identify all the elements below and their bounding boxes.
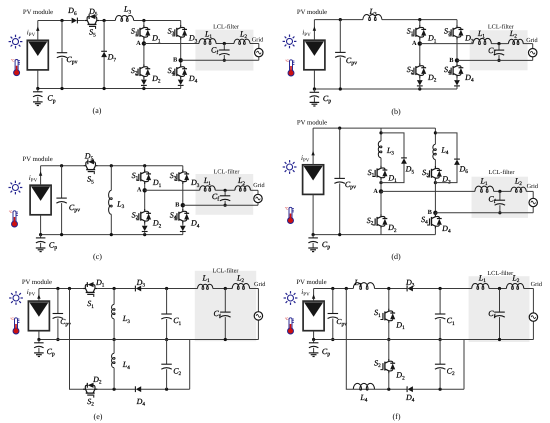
transistor S2 (f) [374, 340, 405, 390]
node C2 bottom (f) [439, 388, 442, 391]
capacitor Cf (a) [211, 44, 230, 61]
LCL-filter label (f) [487, 270, 513, 277]
diode D3 label (d) [441, 175, 451, 186]
diode D7 (a) [101, 21, 116, 89]
capacitor Cf (c) [212, 190, 230, 205]
diode D4 (e) [135, 386, 145, 407]
capacitor Cpv (c) [56, 166, 80, 235]
capacitor Cp (e) [34, 340, 55, 358]
PV panel (e) [28, 301, 49, 331]
svg-text:B: B [175, 202, 180, 209]
PV panel (f) [303, 301, 324, 331]
wire bottom rail (b) [314, 88, 457, 90]
wire filter bottom (a) [181, 57, 259, 61]
svg-text:PV module: PV module [23, 156, 53, 163]
diode D4 label (b) [464, 73, 474, 84]
capacitor Cpv (a) [57, 21, 78, 89]
AC source grid (a) [255, 48, 263, 56]
wire top rail (e) [39, 288, 259, 290]
wire PV top lead (e) [38, 289, 40, 302]
wire feed S2 (e) [70, 289, 84, 390]
svg-text:PV module: PV module [23, 9, 53, 16]
current arrow i_PV (d) [301, 151, 315, 164]
diode below S4 (a) [178, 80, 184, 89]
wire filter top (a) [144, 44, 259, 49]
diode below S2 (c) [142, 226, 148, 235]
node Cpv bottom (d) [338, 233, 341, 236]
node B (c) [175, 202, 185, 209]
wire PV bottom lead (c) [40, 215, 42, 235]
svg-text:(f): (f) [393, 412, 401, 421]
node filter top junction (a) [223, 42, 226, 45]
LCL-filter label (a) [213, 24, 239, 31]
inductor L1 (a) [199, 30, 216, 45]
node filter bottom junction (b) [497, 59, 500, 62]
transistor S4 (a) [168, 64, 187, 78]
thermometer icon (a) [11, 59, 20, 76]
thermometer icon (d) [285, 207, 294, 224]
current arrow i_PV (b) [302, 26, 316, 38]
AC source grid (d) [529, 198, 537, 206]
AC source grid (f) [529, 313, 537, 321]
current arrow i_PV (c) [29, 171, 43, 183]
wire right leg upper (d) [434, 128, 436, 167]
node right tee (d) [434, 131, 437, 134]
svg-text:LCL-filter: LCL-filter [489, 169, 515, 176]
diode D4 label (a) [188, 74, 198, 85]
inductor L2 (e) [232, 274, 249, 290]
wire bridge right leg (b) [456, 20, 458, 80]
svg-text:°C: °C [285, 317, 289, 321]
capacitor Cf (b) [488, 44, 504, 61]
inductor L1 (d) [475, 176, 494, 192]
wire top rail (c) [41, 165, 183, 167]
inductor L3 (e) [112, 289, 131, 340]
node L4 bottom (e) [113, 388, 116, 391]
diode D1 label (d) [387, 174, 397, 185]
svg-text:A: A [373, 188, 378, 195]
PV panel (d) [303, 165, 324, 195]
svg-text:(a): (a) [93, 106, 102, 115]
wire filter top (d) [381, 191, 533, 198]
diode D3 label (b) [464, 34, 474, 45]
node filter top junction (e) [224, 287, 227, 290]
wire return drop (e) [189, 340, 191, 390]
svg-text:°C: °C [10, 317, 14, 321]
PV module label (a) [23, 9, 53, 16]
wire top rail (b) [314, 19, 457, 21]
transistor S2 with diode D2 (e) [83, 375, 102, 408]
node Cpv top (e) [56, 287, 59, 290]
caption (a) [93, 106, 102, 115]
node C2 bottom (e) [165, 388, 168, 391]
node PV bottom (b) [313, 87, 316, 90]
svg-text:Grid: Grid [527, 183, 539, 190]
svg-text:PV module: PV module [22, 279, 52, 286]
node bridge left top (a) [142, 19, 145, 22]
node below S1 (d) [379, 181, 382, 184]
AC source grid (b) [529, 49, 537, 57]
current arrow i_PV (f) [301, 288, 315, 299]
sun icon (f) [284, 291, 298, 305]
LCL-filter label (d) [489, 169, 515, 176]
inductor L1 (e) [198, 274, 213, 290]
node Cpv bottom (e) [56, 338, 59, 341]
sun icon (c) [9, 181, 23, 195]
diode below S2 (b) [417, 80, 423, 89]
PV module label (b) [297, 9, 327, 16]
AC source grid (e) [254, 312, 262, 320]
node D7 bottom (a) [103, 87, 106, 90]
wire filter top (c) [145, 190, 258, 194]
node PV bottom (a) [36, 87, 39, 90]
diode below S2 (a) [141, 80, 147, 89]
node filter bottom junction (d) [498, 211, 501, 214]
svg-text:LCL-filter: LCL-filter [487, 270, 513, 277]
wire top rail (f) [314, 288, 534, 290]
capacitor Cp (c) [36, 235, 57, 252]
wire A to S2 (d) [380, 191, 382, 215]
inductor L4 (f) [353, 383, 374, 403]
wire bridge right leg (a) [180, 21, 182, 80]
transistor S2 (d) [367, 214, 388, 228]
node Cpv bottom (b) [339, 87, 342, 90]
transistor S2 (c) [132, 209, 151, 223]
node Cpv bottom (f) [331, 338, 334, 341]
diode D1 label (a) [151, 34, 161, 45]
node S1 top (f) [387, 287, 390, 290]
wire PV bottom lead (f) [313, 331, 315, 340]
node PV bottom (c) [39, 233, 42, 236]
PV module label (e) [22, 279, 52, 286]
transistor S4 (b) [444, 63, 463, 77]
transistor S1 (c) [132, 170, 151, 184]
capacitor Cpv (f) [328, 289, 348, 340]
node PV bottom mid (f) [312, 338, 315, 341]
thermometer icon (e) [10, 317, 19, 334]
wire B to S4 (d) [434, 213, 436, 215]
svg-text:Grid: Grid [254, 281, 266, 288]
Grid label (b) [526, 37, 538, 44]
inductor L2 (f) [506, 274, 523, 290]
wire bottom rail (d) [313, 234, 435, 236]
transistor S5 with diode D5 (c) [84, 152, 98, 186]
inductor L3 (d) [378, 141, 394, 158]
svg-text:Grid: Grid [252, 36, 264, 43]
wire PV top lead (c) [40, 166, 42, 186]
node filter bottom junction (c) [224, 204, 227, 207]
wire PV top lead (b) [313, 20, 315, 41]
LCL-filter box (c) [196, 174, 254, 215]
node C1 bottom (f) [439, 338, 442, 341]
wire bottom rail (a) [38, 88, 181, 90]
node B (a) [173, 57, 183, 64]
node Cpv top (a) [60, 19, 63, 22]
wire S2 to rail (d) [380, 228, 382, 235]
wire return drop (f) [463, 340, 465, 390]
diode D3 (e) [135, 278, 145, 291]
diode D4 (f) [405, 386, 415, 403]
transistor S2 (b) [407, 63, 426, 77]
transistor S3 (c) [170, 170, 189, 184]
capacitor Cf (e) [214, 289, 231, 340]
inductor L2 (c) [235, 176, 251, 191]
PV module label (f) [296, 279, 326, 286]
wire PV top lead (f) [313, 289, 315, 302]
transistor S1 (a) [131, 25, 150, 39]
node filter top junction (f) [498, 287, 501, 290]
transistor S3 (b) [444, 25, 463, 39]
node B (d) [428, 209, 438, 216]
node bridge left top (b) [418, 18, 421, 21]
wire filter top (f) [472, 289, 534, 313]
wire top rail (a) [38, 20, 181, 22]
inductor L4 (e) [112, 340, 131, 390]
wire bottom rail (e) [83, 388, 190, 390]
svg-text:Grid: Grid [531, 281, 543, 288]
node L3 top (c) [110, 164, 113, 167]
inductor L2 (d) [511, 176, 526, 192]
wire filter bottom (d) [435, 207, 533, 213]
node Cpv top (d) [338, 127, 341, 130]
caption (c) [93, 252, 102, 261]
node bridge left bottom (b) [418, 87, 421, 90]
svg-text:Grid: Grid [253, 182, 265, 189]
diode D4 label (d) [441, 224, 451, 235]
svg-text:PV module: PV module [297, 9, 327, 16]
caption (b) [391, 107, 401, 116]
node filter top junction (b) [497, 42, 500, 45]
inductor L2 (a) [234, 30, 250, 45]
transistor S4 (c) [170, 209, 189, 223]
node filter bottom junction (f) [498, 338, 501, 341]
wire PV bottom lead (d) [312, 194, 314, 234]
wire bridge left leg (b) [419, 20, 421, 80]
capacitor Cp (d) [308, 235, 330, 252]
capacitor Cf (d) [488, 191, 505, 212]
wire filter bottom (b) [457, 57, 533, 61]
wire filter bottom (c) [183, 203, 258, 206]
node after S5 (a) [103, 19, 106, 22]
wire mid rail (f) [314, 339, 534, 341]
diode D4 label (c) [190, 219, 200, 230]
capacitor C1 (e) [161, 289, 181, 340]
node Cpv bottom (a) [60, 87, 63, 90]
node bridge left top (c) [143, 164, 146, 167]
thermometer icon (c) [9, 210, 18, 227]
node Cpv top (b) [339, 18, 342, 21]
wire bottom rail (f) [353, 388, 464, 390]
node PV bottom (d) [312, 233, 315, 236]
diode below S4 (c) [180, 226, 186, 235]
wire bridge left leg (c) [144, 166, 146, 226]
wire S3 to B (d) [434, 180, 436, 213]
LCL-filter box (e) [195, 271, 256, 341]
diode D3 label (c) [190, 178, 200, 189]
wire S1 to A (d) [380, 179, 382, 191]
wire S4 to rail (d) [434, 228, 436, 235]
inductor L3 (b) [363, 7, 382, 21]
node L3 top (e) [113, 287, 116, 290]
Grid label (f) [531, 281, 543, 288]
svg-text:(c): (c) [93, 252, 102, 261]
wire filter bottom (e) [230, 320, 258, 339]
node below S3 (d) [434, 181, 437, 184]
wire mid rail (e) [39, 339, 259, 341]
inductor L4 (d) [433, 144, 449, 159]
PV module label (d) [297, 119, 327, 126]
node Cpv top (c) [60, 164, 63, 167]
diode D1 label (c) [152, 178, 162, 189]
PV panel (a) [27, 40, 48, 70]
inductor L3 (f) [353, 278, 374, 289]
wire PV top lead (d) [312, 128, 314, 165]
diode D6 (a) [67, 6, 77, 23]
node Cpv top (f) [331, 287, 334, 290]
diode D2 label (b) [427, 73, 437, 84]
wire PV bottom lead (b) [313, 70, 315, 89]
current arrow i_PV (a) [27, 26, 40, 38]
diode below S4 (b) [454, 80, 460, 89]
svg-text:Grid: Grid [526, 37, 538, 44]
capacitor C2 (f) [435, 340, 455, 390]
inductor L3 (a) [115, 5, 133, 22]
transistor S1 with diode D1 (e) [83, 278, 105, 310]
node left tee (d) [379, 131, 382, 134]
caption (e) [94, 412, 103, 421]
diode D2 label (d) [387, 223, 397, 234]
capacitor Cp (a) [33, 89, 56, 106]
node C1 top (e) [165, 287, 168, 290]
node S1 bottom (f) [387, 338, 390, 341]
sun icon (e) [9, 291, 23, 305]
node bridge left bottom (c) [143, 233, 146, 236]
wire bridge right leg (c) [182, 166, 184, 226]
svg-text:B: B [173, 57, 178, 64]
caption (d) [391, 252, 401, 261]
svg-text:°C: °C [285, 207, 289, 211]
diode D2 label (c) [152, 219, 162, 230]
capacitor Cpv (b) [335, 20, 357, 89]
svg-text:PV module: PV module [297, 119, 327, 126]
sun icon (d) [283, 160, 297, 174]
transistor S3 (d) [422, 166, 442, 180]
PV module label (c) [23, 156, 53, 163]
wire PV top lead (a) [37, 21, 39, 41]
svg-text:LCL-filter: LCL-filter [213, 24, 239, 31]
node A (c) [137, 187, 147, 194]
LCL-filter box (a) [195, 30, 253, 71]
diode D3 label (a) [188, 34, 198, 45]
transistor S1 (f) [374, 289, 405, 340]
transistor S5 with diode D5 (a) [85, 7, 99, 38]
wire feed L4 (f) [346, 289, 353, 390]
svg-text:B: B [428, 209, 433, 216]
node S2 bottom (f) [387, 388, 390, 391]
transistor S1 (d) [368, 166, 388, 180]
diode D3 (f) [405, 278, 415, 291]
inductor L1 (c) [200, 176, 216, 191]
wire filter top (e) [198, 289, 259, 312]
node L3 bottom mid (e) [113, 338, 116, 341]
svg-text:A: A [137, 187, 142, 194]
capacitor Cp (b) [310, 89, 332, 106]
LCL-filter box (f) [469, 276, 530, 342]
Grid label (c) [253, 182, 265, 189]
diode D1 label (b) [427, 34, 437, 45]
svg-text:°C: °C [285, 59, 289, 63]
transistor S4 (d) [421, 214, 442, 228]
inductor L1 (f) [472, 274, 489, 290]
node feed top (f) [345, 287, 348, 290]
LCL-filter box (b) [470, 30, 528, 70]
PV panel (b) [304, 40, 325, 70]
Grid label (a) [252, 36, 264, 43]
diode D6 branch (d) [435, 133, 468, 183]
node filter top junction (c) [224, 189, 227, 192]
inductor L3 (c) [109, 166, 125, 235]
svg-text:B: B [449, 57, 454, 64]
inductor L1 (b) [473, 29, 491, 45]
svg-text:(d): (d) [391, 252, 401, 261]
svg-text:LCL-filter: LCL-filter [214, 169, 240, 176]
wire filter top (b) [420, 44, 533, 49]
inductor L2 (b) [509, 29, 524, 45]
transistor S2 (a) [131, 64, 150, 78]
svg-text:(b): (b) [391, 107, 401, 116]
wire bottom rail (c) [41, 234, 183, 236]
svg-text:PV module: PV module [296, 279, 326, 286]
sun icon (a) [9, 35, 23, 49]
svg-text:(e): (e) [94, 412, 103, 421]
node PV bottom mid (e) [37, 338, 40, 341]
LCL-filter label (b) [488, 24, 514, 31]
capacitor Cf (f) [488, 289, 505, 340]
PV panel (c) [30, 185, 51, 215]
node A (a) [136, 40, 146, 47]
node filter bottom junction (a) [223, 59, 226, 62]
capacitor Cpv (d) [334, 128, 356, 235]
sun icon (b) [283, 35, 297, 49]
node A (b) [412, 40, 422, 47]
svg-text:A: A [136, 40, 141, 47]
node C1 top (f) [439, 287, 442, 290]
thermometer icon (b) [285, 59, 294, 76]
node C1 bottom (e) [165, 338, 168, 341]
svg-text:°C: °C [9, 210, 13, 214]
svg-text:°C: °C [11, 59, 15, 63]
wire filter bottom (f) [505, 321, 533, 339]
transistor S1 (b) [407, 25, 426, 39]
wire left leg upper (d) [380, 128, 382, 166]
current arrow i_PV (e) [27, 288, 41, 299]
svg-text:LCL-filter: LCL-filter [213, 267, 239, 274]
wire PV bottom lead (e) [38, 331, 40, 340]
caption (f) [393, 412, 401, 421]
node filter top junction (d) [498, 190, 501, 193]
LCL-filter label (e) [213, 267, 239, 274]
LCL-filter label (c) [214, 169, 240, 176]
diode D2 label (a) [151, 74, 161, 85]
capacitor Cp (f) [309, 340, 330, 358]
node Cpv bottom (c) [60, 233, 63, 236]
wire PV bottom lead (a) [37, 70, 39, 89]
node feed top (e) [68, 287, 71, 290]
node bridge left bottom (a) [142, 87, 145, 90]
node filter bottom junction (e) [224, 338, 227, 341]
node A (d) [373, 188, 383, 195]
wire bridge left leg (a) [143, 21, 145, 80]
